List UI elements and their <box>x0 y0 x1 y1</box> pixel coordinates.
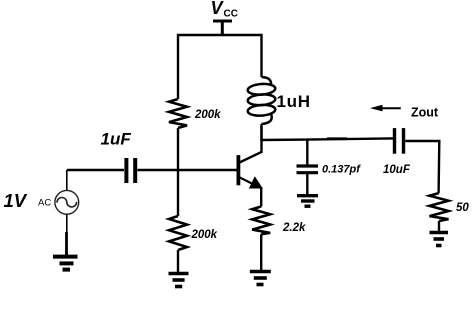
wire glitch overlap <box>327 137 347 139</box>
capacitor C2 0.137pf <box>297 166 319 173</box>
svg-text:200k: 200k <box>191 229 218 241</box>
source V1 sine symbol <box>57 197 77 206</box>
inductor L1 exit arc <box>262 114 272 125</box>
wire AC source bottom lead <box>66 214 68 233</box>
svg-text:2.2k: 2.2k <box>282 222 306 234</box>
wire C1 to base <box>137 169 236 171</box>
wire collector vertical to inductor <box>260 126 262 153</box>
svg-text:Zout: Zout <box>411 106 439 120</box>
arrow Zout <box>380 107 401 109</box>
transistor Q1 collector diagonal <box>240 152 263 163</box>
wire C2 top lead <box>306 140 308 165</box>
svg-text:1uH: 1uH <box>277 92 311 111</box>
svg-text:AC: AC <box>38 197 51 208</box>
ground AC source <box>53 257 78 270</box>
svg-text:50: 50 <box>456 202 469 214</box>
resistor R2 200k lower <box>169 216 187 250</box>
svg-text:1uF: 1uF <box>101 130 132 149</box>
resistor R1 200k upper <box>169 99 187 128</box>
inductor L1 loop 1 <box>247 83 275 95</box>
ground C2 <box>297 196 318 207</box>
inductor L1 loop 3 <box>247 104 275 116</box>
wire base node down to R2 <box>177 170 179 216</box>
ground R4 <box>430 233 449 246</box>
wire R3 to ground <box>260 234 262 270</box>
wire Vcc rail <box>178 35 262 99</box>
wire output rail <box>262 138 394 140</box>
capacitor C3 10uF <box>395 128 404 154</box>
svg-text:1V: 1V <box>4 190 28 211</box>
svg-text:CC: CC <box>224 8 238 19</box>
wire emitter vertical <box>260 188 262 207</box>
wire inductor to output node <box>260 124 262 141</box>
transistor Q1 emitter diagonal <box>240 177 255 184</box>
wire AC source top lead <box>66 170 68 190</box>
svg-text:V: V <box>211 0 225 18</box>
resistor R3 2.2k <box>252 207 270 235</box>
inductor L1 1uH entry arc <box>262 77 272 85</box>
wire input node row <box>67 169 124 171</box>
resistor R4 50 <box>430 193 449 221</box>
wire R2 to ground <box>177 250 179 272</box>
svg-text:10uF: 10uF <box>383 164 411 176</box>
ground R3 <box>250 272 271 285</box>
inductor L1 loop 2 <box>247 94 275 106</box>
transistor Q1 emitter arrow <box>249 176 263 188</box>
wire R4 to ground <box>438 221 440 231</box>
svg-text:200k: 200k <box>194 109 221 121</box>
ground R2 <box>169 274 189 287</box>
svg-text:0.137pf: 0.137pf <box>322 164 361 176</box>
wire C3 to load corner <box>405 141 439 193</box>
capacitor C1 1uF <box>126 158 135 183</box>
wire R1 bottom to base node <box>177 128 179 171</box>
source V1 AC circle <box>55 190 79 214</box>
transistor Q1 base bar <box>236 155 240 185</box>
power Vcc terminal <box>213 21 232 35</box>
wire C2 bottom lead <box>306 174 308 194</box>
